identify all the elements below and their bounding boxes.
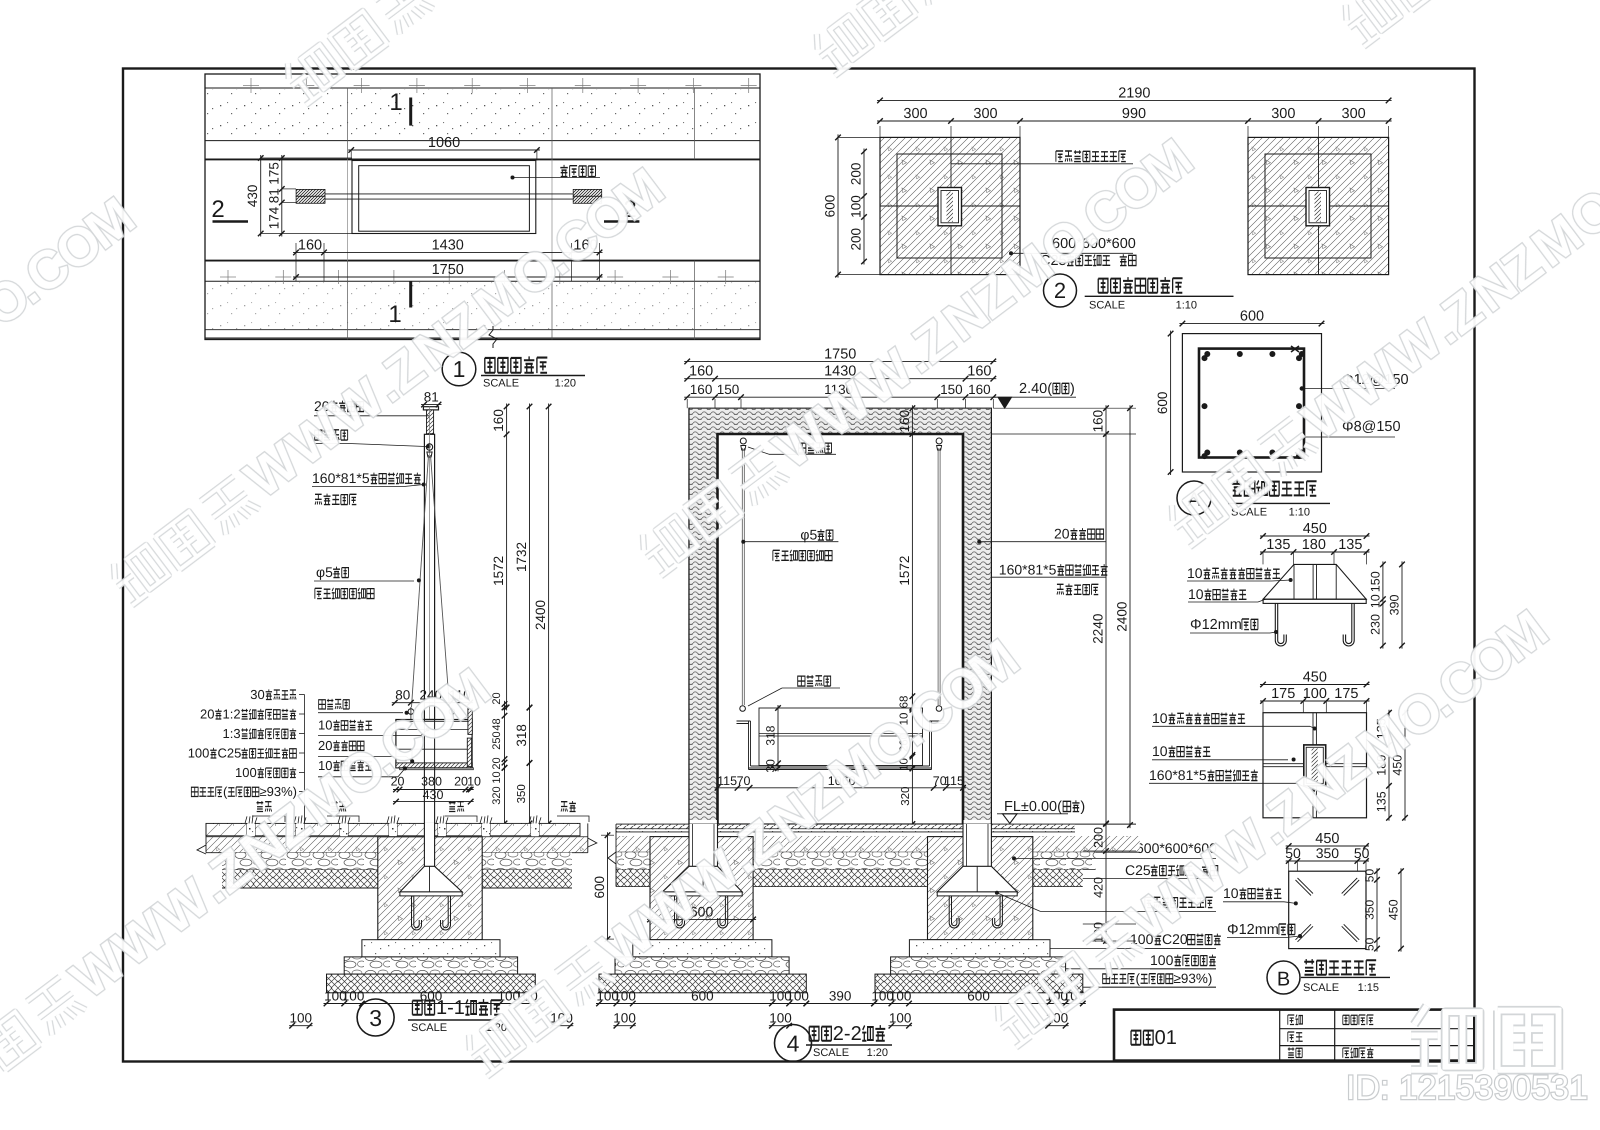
svg-text:20: 20 [200,707,214,722]
svg-text:50: 50 [1354,845,1370,861]
foundation plan dims 2190 [877,99,1392,101]
seat 2-2 center dims [911,693,913,771]
svg-text:): ) [1080,799,1085,815]
svg-text:380: 380 [421,775,442,789]
svg-text:50: 50 [1363,937,1377,951]
seat dims 80 240 110 [392,702,473,704]
svg-text:350: 350 [1363,900,1377,920]
hooks right 2-2 [949,896,959,928]
svg-text:150: 150 [717,382,740,397]
svg-text:150: 150 [1368,571,1382,592]
svg-text:4: 4 [787,1031,800,1057]
title 2 foundation plan [1044,274,1077,307]
svg-text:450: 450 [1303,521,1327,537]
svg-text:1:2: 1:2 [223,707,241,722]
svg-text:300: 300 [1271,106,1295,122]
label seat shackle [319,700,326,709]
svg-text:350: 350 [516,784,528,803]
svg-text:135: 135 [1266,537,1290,553]
svg-text:300: 300 [1342,106,1366,122]
svg-text:20: 20 [491,757,503,769]
svg-text:250: 250 [491,731,503,749]
seat 2-2 board [759,708,923,766]
svg-text:350: 350 [1316,845,1340,861]
section1 dim column inner [506,404,508,711]
frame right column fill [964,434,991,820]
svg-text:(: ( [223,784,228,799]
svg-text:SCALE: SCALE [1303,982,1339,994]
svg-text:3: 3 [369,1005,382,1031]
svg-text:1430: 1430 [432,237,464,253]
watermark logo bottom right [1411,1006,1480,1070]
svg-text:1:20: 1:20 [555,378,576,390]
svg-text:2400: 2400 [533,600,548,630]
trapezoid plate 1-1 [400,866,462,892]
svg-text:1572: 1572 [897,556,912,586]
title 4 section 2-2 [775,1025,812,1062]
plate B diagonal bars [1298,878,1314,894]
svg-text:10: 10 [318,718,332,733]
svg-text:318: 318 [764,725,778,745]
svg-text:300: 300 [903,106,927,122]
svg-text:180: 180 [1302,537,1326,553]
svg-text:160: 160 [690,382,713,397]
svg-text:1060: 1060 [428,135,460,151]
svg-text:1750: 1750 [432,262,464,278]
plan speckle band top [206,89,759,140]
svg-text:600: 600 [823,195,838,218]
plate B square [1289,871,1366,948]
svg-text:160: 160 [491,409,506,432]
rope left 2-2 [741,448,743,705]
svg-text:φ5: φ5 [800,527,817,543]
svg-text:160*81*5: 160*81*5 [1149,767,1207,783]
frame beam fill [690,409,991,434]
svg-text:600: 600 [1240,309,1264,325]
svg-text:100: 100 [290,1011,313,1026]
material stack leader [299,694,305,696]
svg-text:1:10: 1:10 [1289,507,1310,519]
ground 2-2 surface [616,823,1136,825]
svg-text:100: 100 [1150,952,1174,968]
svg-text:175: 175 [266,162,281,185]
label compacted soil [1103,974,1110,984]
dim 600 between sections [607,832,609,942]
title 1 plan [442,352,476,386]
svg-text:100: 100 [769,1011,792,1026]
svg-text:10: 10 [467,775,481,789]
svg-text:430: 430 [245,185,260,208]
svg-text:450: 450 [1387,899,1401,920]
seat box [396,720,472,768]
pole cap [423,407,438,410]
svg-text:φ5: φ5 [316,564,333,580]
svg-text:1:15: 1:15 [1358,982,1379,994]
svg-text:175: 175 [1334,686,1358,702]
plan break mark bottom [489,326,497,348]
svg-text:10: 10 [1187,565,1203,581]
foundation block 1-1 [378,837,482,940]
seat 2-2 dims 318 30 [777,705,779,771]
svg-text:Φ12mm: Φ12mm [1190,617,1242,633]
svg-text:Φ12mm: Φ12mm [1227,922,1279,938]
stepped base left 2-2 [633,940,772,957]
section mark 1 bottom [409,281,412,307]
svg-text:20: 20 [454,775,468,789]
svg-text:100: 100 [786,989,809,1004]
plan dims 175 81 174 [281,155,283,237]
grass labels qiancao [257,801,264,812]
ground 1-1 paving blocks [206,823,247,835]
svg-text:10: 10 [1368,594,1382,608]
svg-text:100: 100 [188,746,210,761]
post left below ground [689,824,718,866]
bottom dims 1-1 [324,1003,539,1005]
svg-text:320: 320 [491,786,503,804]
svg-text:1572: 1572 [491,556,506,586]
plan band lines [205,87,760,89]
pole below in foundation [424,823,434,867]
rebar detail square [1182,334,1321,472]
svg-text:160: 160 [967,364,991,380]
svg-text:135: 135 [1338,537,1362,553]
section2 top dims [684,360,996,362]
right dims below ground [1105,821,1107,944]
svg-text:81: 81 [266,188,281,203]
svg-text:160: 160 [298,237,322,253]
rebar dots [1204,351,1210,357]
svg-text:100: 100 [613,1011,636,1026]
svg-text:990: 990 [1122,106,1146,122]
plan view frame [205,74,760,340]
svg-text:160: 160 [1091,410,1106,433]
leaders to right labels [1012,856,1016,860]
svg-text:230: 230 [1368,614,1382,635]
stirrup hook mark [1291,346,1299,352]
leader see embedded plate detail [1056,151,1063,162]
swing plan rectangle [352,161,536,234]
svg-text:): ) [1070,381,1075,397]
pole cap dim 81 [421,404,442,406]
svg-text:100: 100 [889,989,912,1004]
svg-text:48: 48 [491,718,503,730]
right dims 2-2 [1105,405,1107,437]
svg-text:2: 2 [211,196,224,223]
square detail center I-beam [1304,745,1326,786]
plan plus ticks row2 [220,276,236,278]
pole body [424,434,434,719]
svg-text:C25: C25 [218,746,242,761]
svg-text:10: 10 [1188,586,1204,602]
svg-text:1750: 1750 [824,346,856,362]
svg-text:SCALE: SCALE [1089,300,1125,312]
grass tufts [245,815,257,823]
svg-text:70: 70 [737,774,751,788]
svg-text:100: 100 [889,1011,912,1026]
svg-text:1:10: 1:10 [1176,300,1197,312]
svg-text:115: 115 [717,774,737,788]
svg-text:ID: 1215390531: ID: 1215390531 [1346,1069,1588,1107]
svg-text:1732: 1732 [514,542,529,572]
plan joint lines [347,88,349,159]
ropes [412,455,429,707]
frame column edges below [688,824,690,866]
svg-text:2400: 2400 [1115,602,1130,632]
svg-text:100: 100 [1303,686,1327,702]
seat 2-2 channel [737,721,945,768]
svg-text:320: 320 [900,787,912,806]
svg-text:600: 600 [691,989,714,1004]
svg-text:1-1: 1-1 [436,997,465,1019]
stepped base right 2-2 [909,940,1050,957]
plan dim 1060 [348,149,540,151]
shackle bottom left 2-2 [740,706,746,712]
base dims 20 380 20 10 [393,789,474,791]
svg-text:135: 135 [1375,791,1389,812]
post right below ground [963,824,991,866]
svg-text:1: 1 [388,301,401,328]
svg-text:160: 160 [968,382,991,397]
swing beam lines [296,193,602,195]
svg-text:10: 10 [1152,743,1168,759]
svg-text:10: 10 [1152,710,1168,726]
svg-text:160*81*5: 160*81*5 [999,562,1057,578]
svg-text:(: ( [1136,971,1141,986]
plan dim 430 [260,155,262,237]
svg-text:450: 450 [1303,670,1327,686]
svg-text:390: 390 [829,989,852,1004]
square detail dims 450 [1260,684,1370,686]
label shackle top [315,430,322,440]
svg-text:1:3: 1:3 [223,726,241,741]
seat shackles [408,709,414,715]
foundation block left 2-2 [650,837,753,940]
svg-text:B: B [1277,969,1290,991]
svg-text:01: 01 [1155,1027,1177,1049]
label shackle top 2-2 [799,443,806,453]
svg-text:2.40(: 2.40( [1019,381,1052,397]
foundation left dims 600 [837,134,839,277]
svg-text:390: 390 [1388,594,1402,615]
frame outer [689,408,991,824]
plan plus ticks row1 [243,85,259,87]
svg-text:30: 30 [250,687,264,702]
svg-text:300: 300 [973,106,997,122]
ground 2-2 hatch band [616,836,650,852]
ground 1-1 rubble [222,853,572,870]
ground 2-2 soil band [616,869,650,886]
svg-text:1:20: 1:20 [867,1047,888,1059]
title block box [1114,1010,1474,1061]
left connector hatch [296,189,325,196]
paving gaps with grass soil [247,824,255,836]
svg-text:115: 115 [944,774,964,788]
svg-text:C25: C25 [1125,862,1151,878]
svg-text:100: 100 [342,989,365,1004]
svg-text:20: 20 [318,738,332,753]
shackle bottom right 2-2 [936,706,942,712]
plan dims 160 1430 160 [293,251,603,253]
svg-text:600: 600 [1155,392,1170,415]
section mark 1 top [409,98,412,126]
svg-text:175: 175 [1271,686,1295,702]
right connector hatch [573,189,602,196]
label see plate detail [1145,897,1152,907]
shackle top right [936,438,942,444]
svg-text:200: 200 [849,163,864,186]
ground 1-1 soil [222,870,572,888]
hooks 1-1 [412,896,422,930]
foundation block left [880,137,1020,274]
shackle top left [740,438,746,444]
svg-text:200: 200 [1092,827,1106,848]
svg-text:SCALE: SCALE [483,378,519,390]
ground 2-2 rubble band [616,852,650,869]
svg-text:430: 430 [423,788,444,802]
square detail plate [1263,713,1367,818]
trapezoid right dims [1382,561,1384,648]
svg-text:2-2: 2-2 [833,1023,862,1045]
embedded plate right [1306,188,1330,226]
svg-text:≥93%): ≥93%) [1174,971,1213,986]
dim 430 base [393,801,474,803]
foundation block right 2-2 [928,837,1033,940]
svg-text:SCALE: SCALE [411,1022,447,1034]
trapezoid base plate [1263,599,1366,603]
svg-text:100: 100 [235,765,257,780]
svg-text:318: 318 [514,724,529,747]
svg-text:150: 150 [940,382,963,397]
plate B dims 450 [1286,845,1369,847]
svg-text:20: 20 [1054,526,1070,542]
svg-text:200: 200 [849,228,864,251]
rebar dims 600 [1179,323,1324,325]
frame left column fill [690,434,717,820]
plan dim 1750 [293,276,603,278]
svg-text:10: 10 [491,771,503,783]
svg-text:2240: 2240 [1091,614,1106,644]
frame inner thick outline [718,434,964,824]
svg-text:160*81*5: 160*81*5 [312,470,370,486]
svg-text:160: 160 [689,364,713,380]
pole shackle symbol [426,444,432,450]
trapezoid gusset plate [1263,564,1366,599]
ground 1-1 hatch slab [206,836,588,838]
ground break marks [197,845,206,854]
foundation block right [1248,137,1389,274]
trapezoid plate left 2-2 [663,866,743,892]
svg-text:160: 160 [897,410,912,433]
plate B right dims [1376,868,1378,951]
svg-text:50: 50 [1363,869,1377,883]
svg-text:1: 1 [389,89,402,116]
sheet border frame [123,69,1475,1062]
stepped base 1-1 [362,940,500,957]
title B plate detail [1267,961,1300,994]
plan speckle band bottom [206,282,759,329]
hooks left 2-2 [675,896,685,928]
svg-text:30: 30 [764,759,778,773]
seat right flange [468,708,472,734]
dim 600 in left block [647,918,756,920]
seat bottom plate [396,763,472,768]
trapezoid dims 450 [1260,535,1370,537]
svg-text:100: 100 [849,195,864,218]
trapezoid plate right 2-2 [937,866,1017,892]
seat 2-2 bottom dims [715,787,967,789]
section1 small dims near seat [504,701,506,771]
svg-text:SCALE: SCALE [813,1047,849,1059]
square detail right dims [1388,710,1390,821]
label steel frame swing [560,165,567,177]
bottom dims 2-2 row2 [613,1025,635,1027]
svg-text:600: 600 [967,989,990,1004]
title block texts [1131,1031,1141,1045]
hook bars [1275,603,1286,646]
svg-text:100: 100 [613,989,636,1004]
title A rebar detail [1177,481,1211,515]
svg-text:2190: 2190 [1118,85,1150,101]
svg-text:174: 174 [266,206,281,229]
embedded plate left [938,188,962,226]
svg-text:600: 600 [592,876,607,899]
label shackle bottom 2-2 [798,676,805,686]
svg-text:420: 420 [1092,877,1106,898]
svg-text:FL±0.00(: FL±0.00( [1004,799,1062,815]
rope right 2-2 [937,448,939,705]
bottom dims 2-2 row1 [596,1003,809,1005]
center dim 160 1572 [911,405,913,710]
title 3 section 1-1 [357,999,394,1036]
